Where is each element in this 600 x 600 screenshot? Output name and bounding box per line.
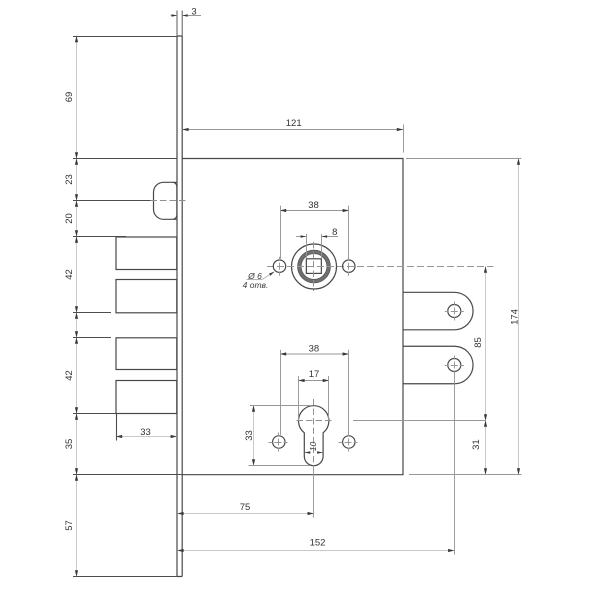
tab upper hole (448, 305, 461, 318)
follower bushing ring (299, 252, 328, 281)
svg-text:42: 42 (64, 370, 75, 381)
screw hole lower-right (343, 436, 355, 448)
svg-text:20: 20 (64, 213, 75, 224)
dimension 31 cylinder to body bottom (485, 421, 487, 475)
dimension 3 faceplate thickness (171, 15, 177, 17)
euro cylinder keyhole (299, 406, 329, 466)
horizontal centerline through follower and screw holes (267, 266, 494, 268)
left dimension chain vertical line with arrows (76, 36, 78, 577)
cylinder centre extension line to right (353, 420, 486, 422)
left chain tick lines (73, 37, 182, 577)
svg-text:174: 174 (510, 309, 521, 325)
svg-text:10: 10 (308, 442, 318, 452)
dimension 174 body height (518, 159, 520, 475)
dimension 85 follower to cylinder (485, 267, 487, 421)
svg-text:33: 33 (140, 427, 151, 438)
svg-text:152: 152 (310, 538, 326, 549)
deadbolt 1 (116, 237, 177, 270)
screw hole upper-right vertical centerline (348, 257, 350, 276)
faceplate top extension lines (177, 11, 182, 37)
svg-text:23: 23 (64, 174, 75, 185)
tab lower hole centerlines (445, 356, 464, 375)
dimension 8 follower square (296, 236, 306, 238)
dimension 17 cylinder width (298, 380, 329, 382)
dimension 75 backset (177, 513, 313, 515)
fixing tab lower (403, 346, 473, 384)
screw hole lower-left (273, 436, 285, 448)
svg-text:35: 35 (64, 439, 75, 450)
screw hole lower-left centerlines (269, 433, 291, 452)
tab lower hole (448, 359, 461, 372)
dimension 38 upper screw holes (280, 210, 349, 212)
latch bolt (154, 182, 178, 219)
svg-text:121: 121 (286, 118, 302, 129)
cylinder horizontal centerline (297, 420, 333, 422)
deadbolt 3 (116, 338, 177, 370)
svg-text:8: 8 (332, 227, 337, 238)
dimension 121 body width (182, 129, 403, 131)
dimension 38 lower screw holes (280, 353, 349, 355)
svg-text:42: 42 (64, 269, 75, 280)
screw hole upper-left (273, 260, 285, 272)
deadbolt 2 (116, 280, 177, 313)
svg-text:17: 17 (309, 369, 320, 380)
lock body (182, 159, 403, 475)
leader label diameter 6, 4 holes (247, 272, 275, 280)
dimension 33 deadbolt depth (116, 436, 177, 438)
svg-text:33: 33 (244, 430, 255, 441)
screw hole upper-left vertical centerline (279, 257, 281, 276)
dimension 10 cylinder slot width (305, 452, 310, 454)
dimension 33 cylinder height (253, 406, 255, 466)
svg-text:57: 57 (64, 520, 75, 531)
deadbolt 4 (116, 381, 177, 414)
screw hole lower-right centerlines (339, 433, 361, 452)
follower outer circle (292, 244, 337, 289)
svg-text:69: 69 (64, 92, 75, 103)
fixing tab upper (403, 292, 473, 330)
screw hole upper-right (343, 260, 355, 272)
follower vertical centerline (313, 242, 315, 291)
latch centerline (151, 200, 189, 202)
svg-text:85: 85 (473, 337, 484, 348)
tab upper hole centerlines (445, 302, 464, 321)
svg-text:3: 3 (191, 7, 196, 18)
cylinder vertical centerline (313, 399, 315, 466)
svg-text:38: 38 (308, 200, 319, 211)
svg-text:38: 38 (309, 343, 320, 354)
svg-text:75: 75 (240, 502, 251, 513)
svg-text:31: 31 (471, 439, 482, 450)
faceplate (177, 36, 182, 577)
follower square hole 8mm (306, 259, 321, 274)
dimension 152 faceplate to tab holes (177, 550, 454, 552)
svg-text:4 отв.: 4 отв. (243, 280, 269, 290)
